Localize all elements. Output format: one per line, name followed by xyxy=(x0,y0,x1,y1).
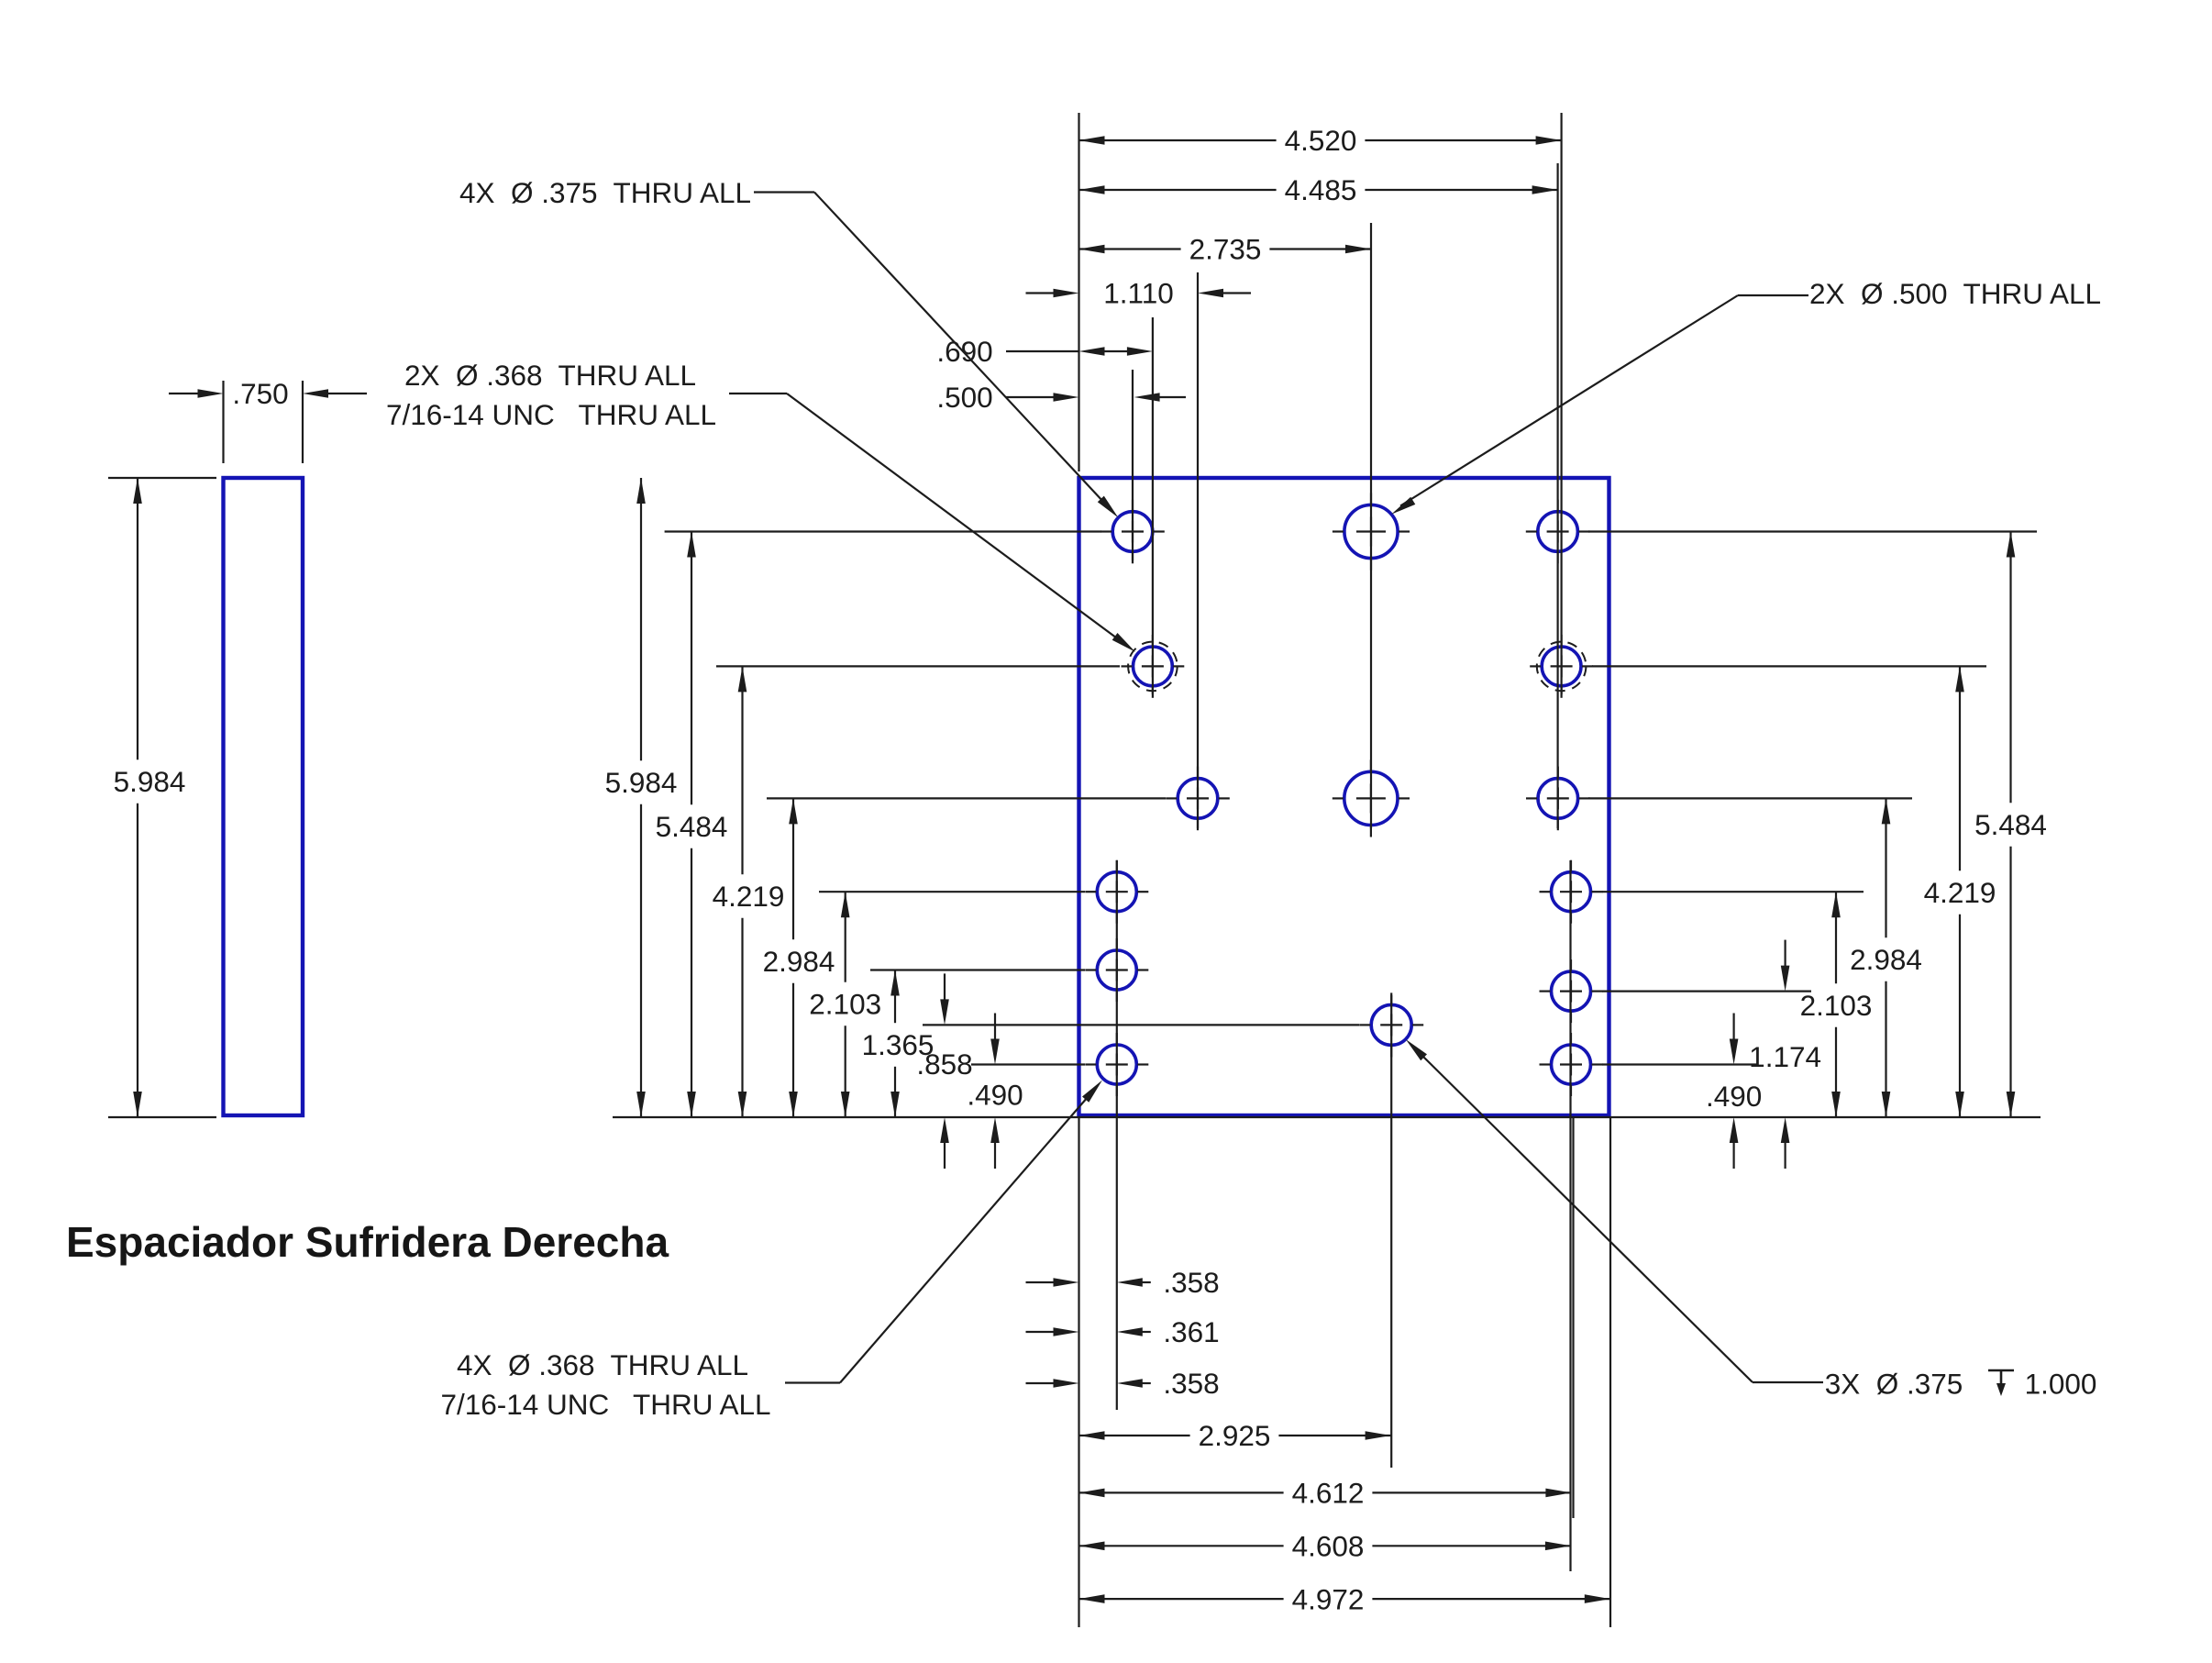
row extension threaded holes left (4.219) xyxy=(716,665,1120,667)
side view outline (left view of spacer plate) xyxy=(224,478,304,1115)
svg-text:1.000: 1.000 xyxy=(2025,1368,2097,1401)
note 4X Ø .375 THRU ALL xyxy=(459,176,1118,517)
svg-text:.361: .361 xyxy=(1163,1315,1219,1348)
svg-text:2.103: 2.103 xyxy=(809,988,881,1021)
extension line plate right edge bottom 4.972 xyxy=(1609,1117,1611,1627)
svg-text:2X Ø .500 THRU ALL: 2X Ø .500 THRU ALL xyxy=(1809,277,2101,310)
hole C top-right Ø.375 xyxy=(1526,500,1590,564)
row extension row5 right (1.174) xyxy=(1602,990,1811,992)
dim 5.484 left xyxy=(656,532,728,1118)
svg-text:4X Ø .375 THRU ALL: 4X Ø .375 THRU ALL xyxy=(459,176,751,209)
svg-text:5.484: 5.484 xyxy=(656,810,728,843)
svg-text:1.174: 1.174 xyxy=(1749,1040,1821,1073)
svg-text:4.520: 4.520 xyxy=(1285,124,1357,157)
svg-text:2.984: 2.984 xyxy=(763,945,835,978)
svg-text:.500: .500 xyxy=(936,381,992,414)
svg-text:2.925: 2.925 xyxy=(1199,1419,1271,1452)
dim 4.520 xyxy=(1079,124,1562,157)
svg-text:5.984: 5.984 xyxy=(114,765,186,798)
extension line plate left edge (top) xyxy=(1078,113,1079,471)
extension line hole D column .690 xyxy=(1152,317,1154,694)
baseline datum bottom edge xyxy=(613,1116,2041,1118)
svg-text:7/16-14 UNC THRU ALL: 7/16-14 UNC THRU ALL xyxy=(440,1388,770,1421)
note 4X Ø .368 THRU ALL / 7/16-14 UNC THRU ALL xyxy=(440,1081,1102,1422)
extension line hole B/G column 2.735 xyxy=(1370,223,1372,828)
dim 1.365 left xyxy=(862,970,935,1118)
extension line hole E column 4.520 xyxy=(1560,113,1562,694)
svg-text:4X Ø .368 THRU ALL: 4X Ø .368 THRU ALL xyxy=(457,1348,748,1381)
svg-text:2.735: 2.735 xyxy=(1189,233,1262,266)
hole E threaded Ø.368 7/16-14 UNC right xyxy=(1530,635,1593,698)
row extension row6 right (.490) xyxy=(1602,1063,1757,1065)
dim 4.612 xyxy=(1079,1477,1572,1510)
extension line right column 4.612 xyxy=(1572,1117,1574,1518)
dim 4.972 xyxy=(1079,1582,1610,1615)
dim 5.984 (side view height) xyxy=(114,478,186,1117)
center line left hole column xyxy=(1116,860,1118,1410)
row extension row4 left (2.103) xyxy=(819,891,1085,892)
hole R4 right column Ø.368 xyxy=(1540,860,1603,924)
note 2X Ø .500 THRU ALL xyxy=(1391,277,2101,515)
dim 2.984 right xyxy=(1850,798,1922,1117)
svg-text:7/16-14 UNC THRU ALL: 7/16-14 UNC THRU ALL xyxy=(386,398,716,431)
hole G middle Ø.500 xyxy=(1333,759,1410,837)
row extension top holes right (5.484) xyxy=(1588,530,2037,532)
hole L6 left column Ø.368 xyxy=(1085,1033,1148,1096)
hole H middle-right Ø.375 xyxy=(1526,767,1590,831)
hole L4 left column Ø.368 xyxy=(1085,860,1148,924)
extension line hole F column 1.110 xyxy=(1197,272,1199,828)
svg-text:4.485: 4.485 xyxy=(1285,173,1357,206)
svg-text:3X Ø .375: 3X Ø .375 xyxy=(1825,1368,1963,1401)
row extension threaded holes right (4.219) xyxy=(1592,665,1986,667)
svg-text:4.972: 4.972 xyxy=(1292,1582,1365,1615)
row extension middle holes right (2.984) xyxy=(1588,797,1912,799)
hole L5 left column Ø.375 blind xyxy=(1085,938,1148,1002)
dim .690 xyxy=(936,335,1153,368)
row extension top holes left (5.484) xyxy=(665,530,1101,532)
dim .361 xyxy=(1026,1315,1220,1348)
extension line hole C/H column 4.485 xyxy=(1556,163,1558,828)
svg-text:4.608: 4.608 xyxy=(1292,1530,1365,1563)
svg-text:.750: .750 xyxy=(232,377,288,410)
svg-text:2.103: 2.103 xyxy=(1800,989,1873,1022)
dim 1.110 xyxy=(1026,277,1252,310)
dim 4.485 xyxy=(1079,173,1558,206)
dim .750 (side view width) xyxy=(169,377,367,410)
dim 4.219 left xyxy=(713,666,785,1117)
svg-text:.690: .690 xyxy=(936,335,992,368)
dim .358 top xyxy=(1026,1266,1220,1299)
row extension middle holes left (2.984) xyxy=(767,797,1166,799)
hole A top-left Ø.375 xyxy=(1100,500,1165,564)
dim .750 extension lines (side view top) xyxy=(224,381,304,463)
row extension hole M (.858) xyxy=(923,1024,1359,1026)
svg-text:.490: .490 xyxy=(1706,1080,1762,1113)
hole M bottom-middle Ø.375 blind xyxy=(1359,992,1423,1057)
front view plate outline xyxy=(1079,478,1609,1115)
svg-text:5.984: 5.984 xyxy=(605,766,678,799)
svg-text:2.984: 2.984 xyxy=(1850,943,1922,976)
svg-text:.358: .358 xyxy=(1163,1266,1219,1299)
dim .490 left xyxy=(967,1014,1023,1170)
svg-text:4.219: 4.219 xyxy=(713,880,785,913)
dim .500 xyxy=(936,381,1186,414)
svg-text:1.110: 1.110 xyxy=(1103,277,1174,310)
dim 1.174 right xyxy=(1749,940,1821,1169)
dim 5.984 left xyxy=(605,478,678,1117)
dim .358 bottom xyxy=(1026,1367,1220,1400)
dim 2.984 left xyxy=(763,798,835,1117)
extension line hole A column .500 xyxy=(1132,370,1134,560)
hole R5 right column Ø.375 blind xyxy=(1540,959,1603,1023)
note 2X Ø .368 THRU ALL / 7/16-14 UNC THRU ALL xyxy=(386,359,1135,652)
svg-text:4.219: 4.219 xyxy=(1924,876,1996,909)
dim 5.984 extension lines (side view) xyxy=(108,478,216,1117)
dim .490 right xyxy=(1706,1014,1762,1170)
center line hole M column 2.925 xyxy=(1390,995,1392,1468)
svg-text:.490: .490 xyxy=(967,1079,1023,1112)
hole D threaded Ø.368 7/16-14 UNC left xyxy=(1122,635,1185,698)
dim 5.484 right xyxy=(1974,532,2047,1118)
dim 4.608 xyxy=(1079,1530,1571,1563)
row extension row6 left (.490) xyxy=(971,1063,1085,1065)
svg-text:5.484: 5.484 xyxy=(1974,808,2047,841)
title Espaciador Sufridera Derecha xyxy=(66,1218,669,1266)
svg-text:.858: .858 xyxy=(916,1048,972,1081)
row extension row4 right (2.103) xyxy=(1602,891,1864,892)
hole B top-middle Ø.500 xyxy=(1333,493,1410,570)
dim 2.925 xyxy=(1079,1419,1391,1452)
extension line plate left edge bottom xyxy=(1078,1117,1079,1627)
dim 2.735 xyxy=(1079,233,1372,266)
dim .858 left xyxy=(916,973,972,1169)
hole F middle-left Ø.375 xyxy=(1166,767,1230,831)
dim 2.103 right xyxy=(1800,892,1873,1117)
dim 4.219 right xyxy=(1924,666,1996,1117)
svg-text:4.612: 4.612 xyxy=(1292,1477,1365,1510)
svg-text:2X Ø .368 THRU ALL: 2X Ø .368 THRU ALL xyxy=(404,359,696,392)
dim 2.103 left xyxy=(809,892,881,1117)
center line right hole column 4.608 xyxy=(1569,860,1571,1571)
svg-text:.358: .358 xyxy=(1163,1367,1219,1400)
note 3X Ø .375 depth 1.000 xyxy=(1406,1039,2097,1401)
hole R6 right column Ø.368 xyxy=(1540,1033,1603,1096)
svg-text:Espaciador Sufridera Derecha: Espaciador Sufridera Derecha xyxy=(66,1218,669,1266)
row extension row5 left (1.365) xyxy=(870,969,1085,970)
